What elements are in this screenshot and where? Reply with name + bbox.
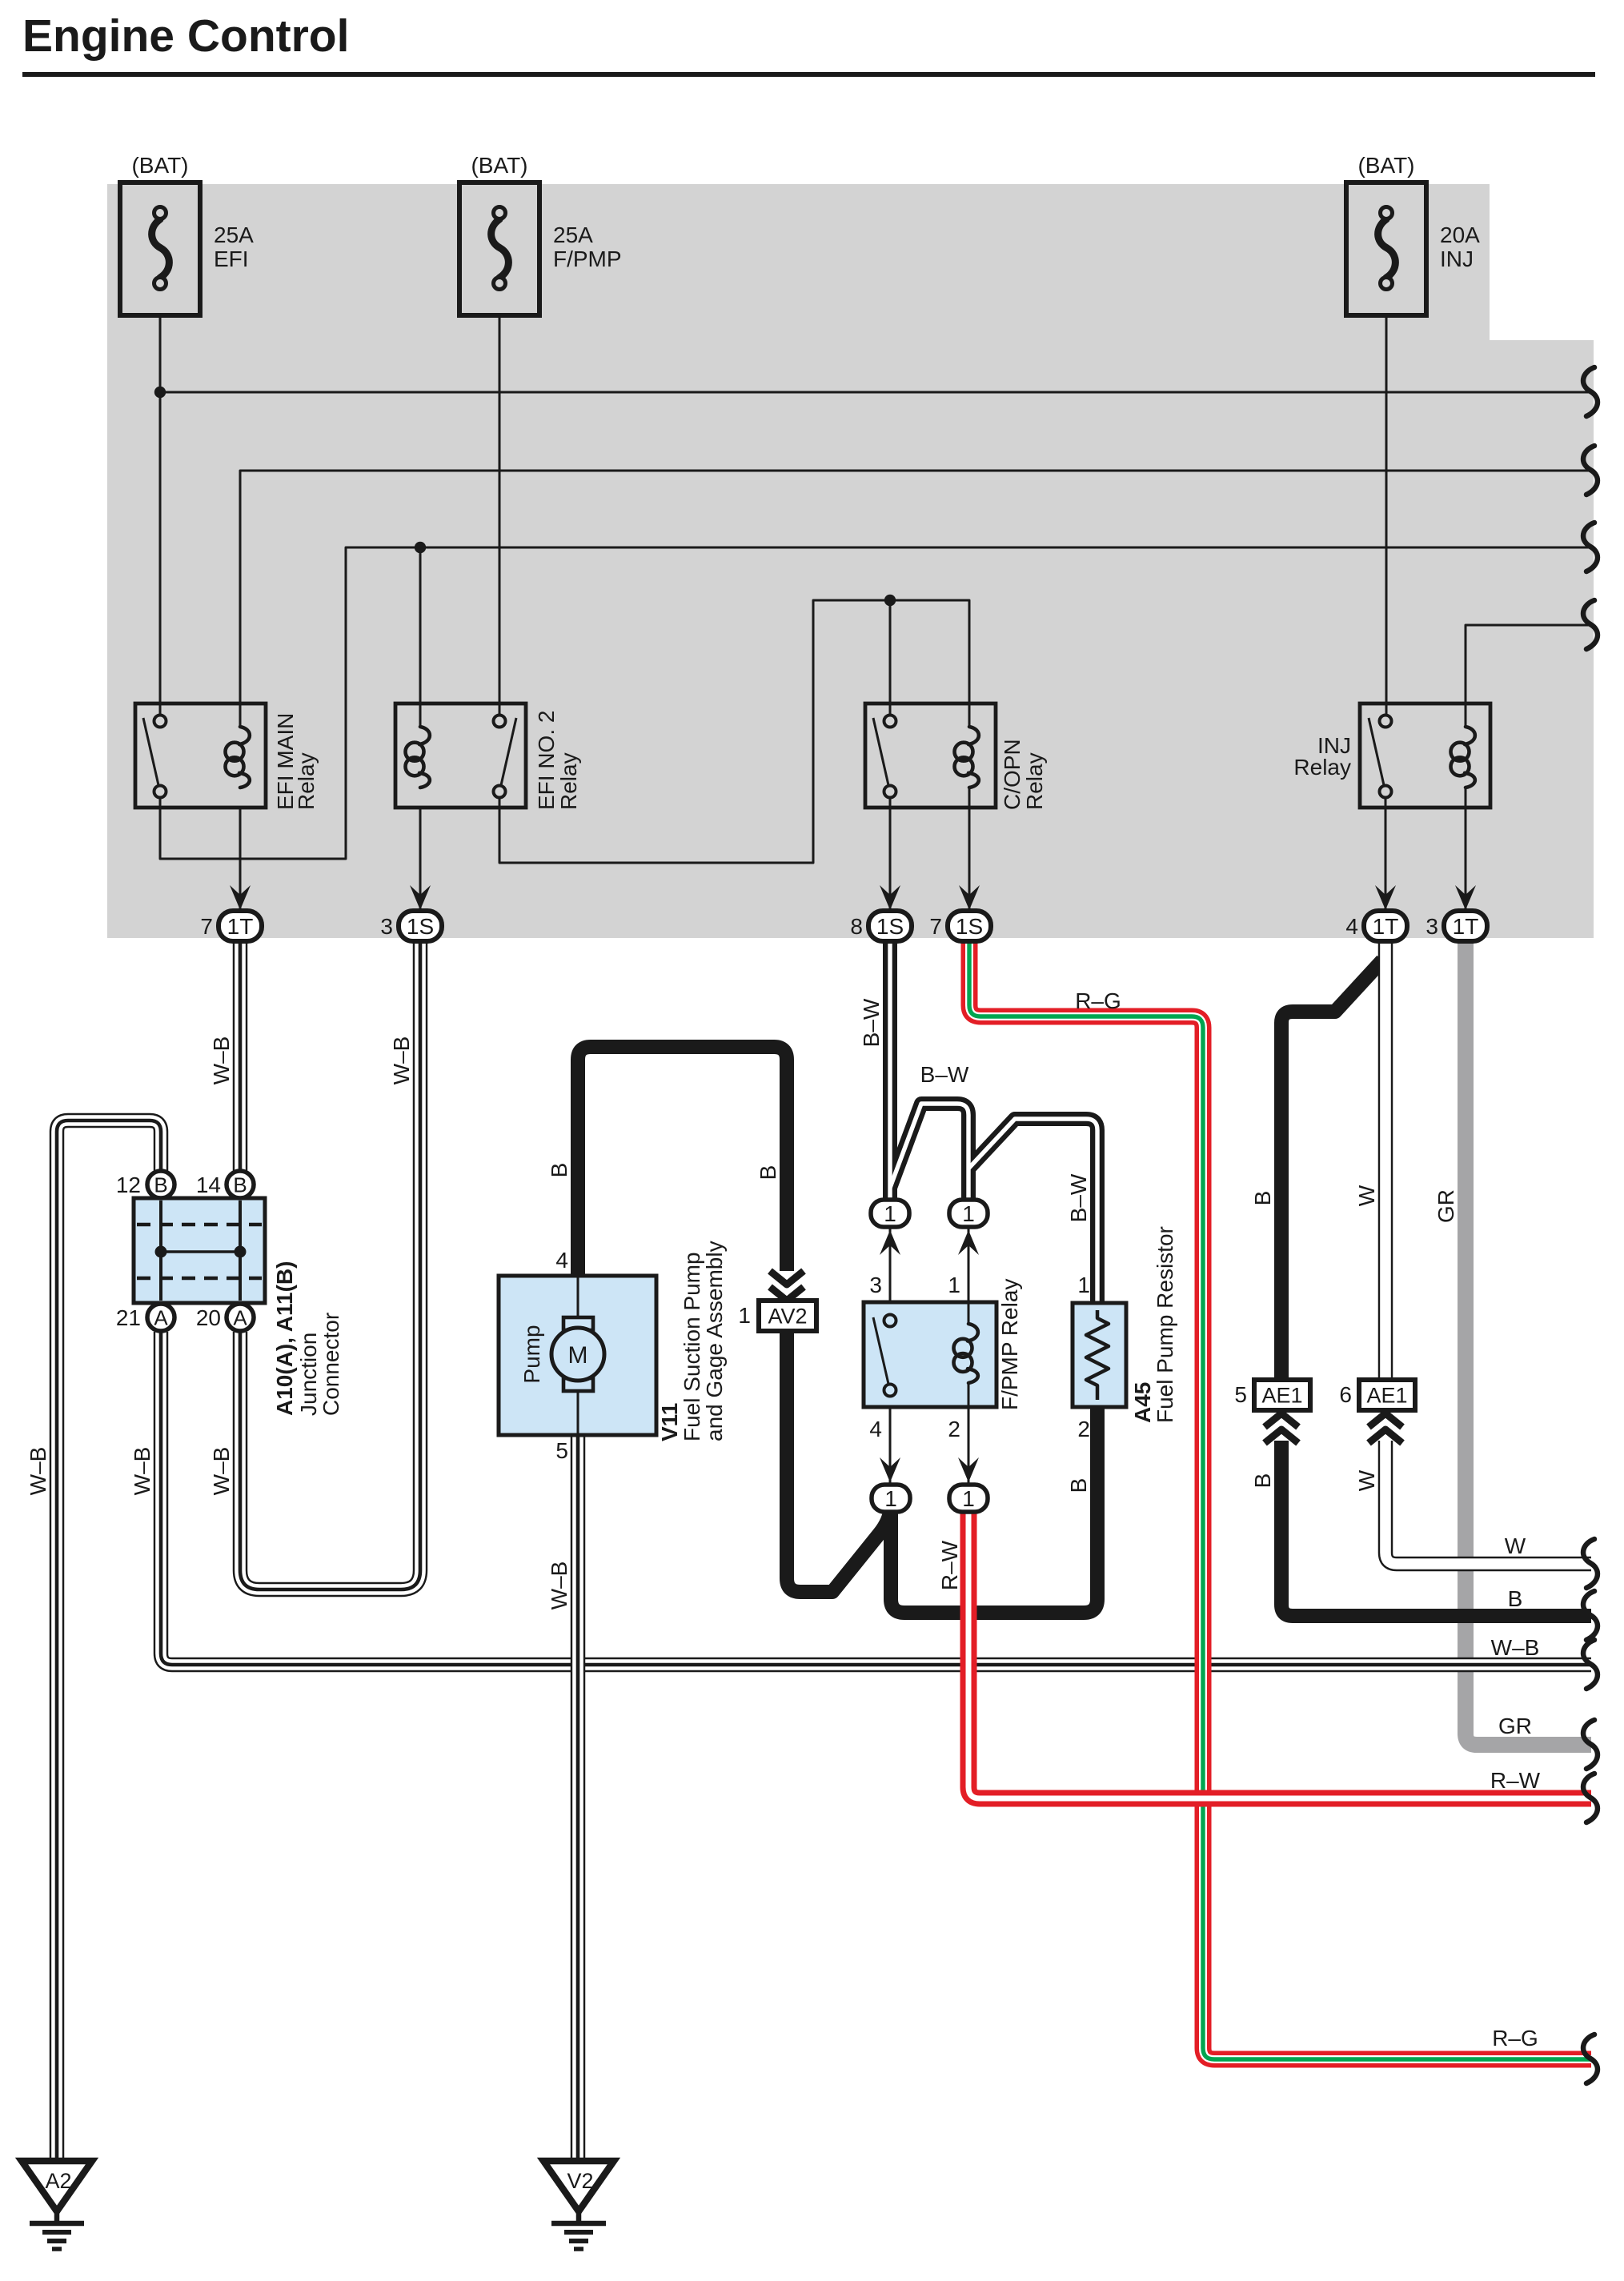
connector 7 1S — [948, 911, 991, 941]
svg-text:4: 4 — [1345, 914, 1358, 939]
connector 1 below F/PMP pin2 — [949, 1485, 988, 1512]
break symbol feeder y=781 — [1583, 600, 1598, 649]
wire EFI MAIN switch output to feeder line 3 — [160, 547, 1591, 859]
svg-text:1S: 1S — [407, 914, 434, 939]
fuse 20A INJ — [1346, 182, 1426, 315]
svg-text:20: 20 — [196, 1305, 221, 1330]
svg-text:1: 1 — [962, 1201, 975, 1226]
svg-text:R–G: R–G — [1075, 988, 1121, 1013]
wire feeder3 branch to EFI NO.2 coil — [419, 547, 422, 727]
wire EFI NO.2 switch output to C/OPN relay — [499, 600, 969, 863]
junction connector internal link — [161, 1250, 240, 1253]
svg-text:B: B — [154, 1173, 167, 1197]
svg-text:W–B: W–B — [389, 1036, 414, 1085]
svg-text:1T: 1T — [1453, 914, 1479, 939]
svg-text:3: 3 — [1426, 914, 1438, 939]
arrow into connector x=1831 — [1455, 885, 1476, 910]
terminal 21 A — [147, 1304, 174, 1331]
svg-text:W: W — [1505, 1533, 1526, 1558]
ground V2 — [543, 2161, 614, 2211]
pump internal wire — [577, 1276, 579, 1435]
svg-text:25A: 25A — [553, 222, 593, 247]
svg-text:3: 3 — [869, 1273, 882, 1297]
connector 6 AE1 box — [1359, 1380, 1415, 1410]
connector AV2 chevrons — [770, 1271, 804, 1285]
svg-text:B: B — [1066, 1478, 1091, 1493]
svg-text:B: B — [1508, 1586, 1523, 1611]
node junction feeder3 to EFI NO.2 coil — [415, 542, 426, 553]
svg-text:1S: 1S — [956, 914, 983, 939]
break symbol feeder y=588 — [1583, 446, 1598, 495]
arrow into connector x=525 — [410, 885, 431, 910]
connector 1 above F/PMP pin3 — [871, 1200, 909, 1227]
svg-text:1: 1 — [884, 1201, 896, 1226]
svg-text:EFI: EFI — [214, 247, 249, 271]
svg-text:Engine Control: Engine Control — [22, 10, 349, 62]
svg-text:W–B: W–B — [209, 1447, 234, 1496]
svg-text:4: 4 — [555, 1248, 568, 1273]
svg-text:B: B — [547, 1163, 571, 1178]
wire feeder line 2 from EFI MAIN coil — [240, 471, 1591, 727]
svg-text:1: 1 — [948, 1273, 960, 1297]
component V11 pump box — [499, 1276, 656, 1435]
wire relay output x=1731 — [1385, 798, 1387, 916]
wire W-B pump pin5 to ground V2 — [571, 1435, 586, 2161]
svg-text:1: 1 — [738, 1303, 751, 1328]
svg-text:W–B: W–B — [26, 1447, 50, 1496]
svg-text:Relay: Relay — [1022, 752, 1047, 810]
connector 7 1T — [219, 911, 262, 941]
svg-text:R–W: R–W — [1490, 1768, 1541, 1793]
wire W from 4-1T via AE1-6 to right edge — [1385, 940, 1591, 1564]
svg-text:B: B — [756, 1165, 780, 1181]
break symbol exit y=1954 — [1583, 1539, 1598, 1588]
svg-text:M: M — [568, 1342, 588, 1369]
junction connector dashed bus top — [137, 1223, 262, 1227]
wire F/PMP pin1 to connector — [968, 1226, 970, 1302]
svg-text:R–G: R–G — [1492, 2026, 1538, 2050]
svg-text:F/PMP: F/PMP — [553, 247, 622, 271]
svg-text:5: 5 — [555, 1438, 568, 1463]
break symbol feeder y=490 — [1583, 367, 1598, 416]
svg-text:V2: V2 — [567, 2169, 593, 2193]
wire W-B from 21A to right edge — [161, 1332, 1591, 1665]
relay EFI MAIN switch — [143, 718, 158, 785]
fuse 25A EFI — [120, 182, 200, 315]
svg-text:2: 2 — [948, 1417, 960, 1441]
resistor zigzag — [1086, 1310, 1109, 1400]
svg-text:5: 5 — [1234, 1382, 1247, 1407]
svg-text:25A: 25A — [214, 222, 254, 247]
wire W-B from junction 12B to ground A2 — [57, 1120, 161, 2161]
connector 8 1S — [868, 911, 912, 941]
svg-text:Relay: Relay — [294, 752, 319, 810]
junction connector dashed bus bottom — [137, 1277, 262, 1281]
svg-text:B: B — [1250, 1191, 1275, 1206]
wire fuse F/PMP to EFI NO.2 relay switch — [499, 315, 501, 721]
svg-text:A: A — [233, 1306, 247, 1330]
svg-text:B–W: B–W — [859, 998, 884, 1047]
wire F/PMP pin2 to connector — [968, 1407, 970, 1485]
wire F/PMP pin3 to connector — [889, 1226, 892, 1302]
svg-text:A: A — [154, 1306, 168, 1330]
junction connector box — [134, 1198, 265, 1303]
node junction C/OPN feed — [884, 595, 896, 606]
svg-text:and Gage Assembly: and Gage Assembly — [702, 1241, 727, 1441]
component A45 box — [1073, 1303, 1126, 1407]
break symbol exit y=2080 — [1583, 1640, 1598, 1689]
junction connector inner verticals — [159, 1201, 162, 1301]
connector 5 AE1 box — [1254, 1380, 1310, 1410]
connector 1 below F/PMP pin4 — [872, 1485, 910, 1512]
svg-text:W–B: W–B — [209, 1036, 234, 1085]
connector 1 above F/PMP pin1 — [949, 1200, 988, 1227]
svg-text:W–B: W–B — [547, 1561, 571, 1610]
svg-text:(BAT): (BAT) — [131, 153, 188, 178]
arrow into connector x=1112 — [880, 885, 900, 910]
svg-text:6: 6 — [1339, 1382, 1352, 1407]
wire B-W from 8-1S with branches to F/PMP pin1 and resistor A45 — [883, 940, 897, 1201]
svg-text:Relay: Relay — [556, 752, 581, 810]
relay C/OPN coil — [968, 727, 979, 744]
arrow into connector x=300 — [230, 885, 251, 910]
svg-text:F/PMP Relay: F/PMP Relay — [997, 1279, 1022, 1410]
svg-text:Junction: Junction — [296, 1333, 321, 1416]
wire R-W from F/PMP pin2 connector to right edge — [968, 1511, 1591, 1798]
relay INJ box — [1360, 704, 1490, 808]
break symbol exit y=2019 — [1583, 1591, 1598, 1640]
break symbol exit y=2573 — [1583, 2034, 1598, 2083]
terminal 14 B — [227, 1171, 254, 1198]
arrow into connector x=1211 — [959, 885, 980, 910]
svg-text:C/OPN: C/OPN — [1000, 739, 1025, 810]
wire fuse EFI to EFI MAIN relay switch — [159, 315, 162, 721]
svg-text:3: 3 — [380, 914, 393, 939]
ground A2 — [22, 2161, 92, 2211]
svg-text:EFI NO. 2: EFI NO. 2 — [534, 711, 559, 810]
wire fuse INJ to INJ relay switch — [1385, 315, 1388, 721]
svg-text:2: 2 — [1077, 1417, 1090, 1441]
svg-text:B: B — [1250, 1473, 1275, 1489]
svg-text:12: 12 — [116, 1173, 141, 1197]
svg-text:1: 1 — [884, 1486, 897, 1511]
break symbol feeder y=684 — [1583, 523, 1598, 571]
wire B AV2 to F/PMP pin4 connector — [787, 1331, 891, 1592]
svg-text:1T: 1T — [1373, 914, 1399, 939]
wire W-B from 7-1T to junction 14B — [233, 940, 248, 1171]
node junction on EFI fuse wire — [154, 387, 166, 398]
wire B pump pin4 to AV2 — [578, 1047, 787, 1276]
svg-text:Pump: Pump — [519, 1325, 544, 1383]
svg-text:W: W — [1354, 1469, 1379, 1491]
svg-text:W: W — [1354, 1185, 1379, 1206]
svg-text:Fuel Suction Pump: Fuel Suction Pump — [680, 1252, 704, 1441]
fuse 25A F/PMP — [459, 182, 539, 315]
terminal 12 B — [147, 1171, 174, 1198]
svg-text:A2: A2 — [45, 2169, 71, 2193]
relay C/OPN switch — [873, 718, 888, 785]
wire GR from 3-1T to right edge — [1466, 940, 1591, 1745]
svg-text:W–B: W–B — [1491, 1635, 1540, 1660]
relay F/PMP box — [864, 1302, 996, 1407]
svg-text:AE1: AE1 — [1261, 1384, 1302, 1408]
svg-text:4: 4 — [869, 1417, 882, 1441]
connector 3 1S — [399, 911, 442, 941]
svg-text:R–W: R–W — [937, 1540, 962, 1590]
svg-text:14: 14 — [196, 1173, 221, 1197]
relay INJ switch — [1369, 718, 1384, 785]
svg-text:Connector: Connector — [319, 1313, 343, 1416]
relay EFI MAIN coil — [239, 727, 250, 744]
svg-text:V11: V11 — [657, 1403, 682, 1441]
svg-text:GR: GR — [1498, 1714, 1532, 1738]
wire feeder line 1 — [160, 391, 1591, 394]
connector AV2 box — [759, 1301, 816, 1331]
svg-text:AE1: AE1 — [1366, 1384, 1407, 1408]
relay EFI NO.2 box — [395, 704, 526, 808]
svg-text:GR: GR — [1434, 1189, 1458, 1223]
relay EFI NO.2 switch — [501, 718, 516, 785]
motor brush top — [563, 1317, 593, 1330]
svg-text:A10(A), A11(B): A10(A), A11(B) — [272, 1261, 297, 1416]
svg-text:1: 1 — [962, 1486, 975, 1511]
relay INJ coil — [1465, 727, 1475, 744]
svg-text:A45: A45 — [1130, 1382, 1155, 1423]
svg-text:B–W: B–W — [1066, 1173, 1091, 1222]
connector 4 1T — [1364, 911, 1407, 941]
svg-text:7: 7 — [929, 914, 942, 939]
break symbol exit y=2180 — [1583, 1720, 1598, 1769]
svg-text:Relay: Relay — [1293, 755, 1351, 780]
gray harness region — [107, 184, 1594, 938]
motor brush bottom — [563, 1378, 593, 1391]
connector 3 1T — [1444, 911, 1487, 941]
wire relay output x=1831 — [1465, 789, 1467, 916]
svg-text:AV2: AV2 — [768, 1305, 807, 1329]
svg-text:(BAT): (BAT) — [471, 153, 527, 178]
wire relay output x=300 — [239, 808, 242, 916]
svg-text:INJ: INJ — [1440, 247, 1474, 271]
wire feeder line 4 from INJ coil — [1466, 625, 1591, 727]
wire relay output x=1112 — [889, 798, 892, 916]
svg-text:Fuel Pump Resistor: Fuel Pump Resistor — [1153, 1226, 1177, 1423]
svg-text:(BAT): (BAT) — [1357, 153, 1414, 178]
relay C/OPN box — [865, 704, 996, 808]
wire relay output x=525 — [419, 808, 422, 916]
relay F/PMP switch — [873, 1317, 888, 1384]
svg-text:B–W: B–W — [920, 1062, 969, 1087]
wire B F/PMP pin4 connector to resistor A45 pin2 — [891, 1407, 1097, 1613]
terminal 20 A — [227, 1304, 254, 1331]
wire C/OPN feed branch to switch — [889, 600, 892, 721]
arrow into connector x=1731 — [1375, 885, 1396, 910]
wire relay output x=1211 — [968, 789, 971, 916]
motor M — [551, 1328, 604, 1381]
svg-text:1S: 1S — [876, 914, 904, 939]
relay EFI MAIN box — [135, 704, 266, 808]
relay F/PMP coil — [968, 1324, 978, 1341]
title underline — [22, 72, 1595, 77]
connector 5 AE1 chevrons — [1265, 1429, 1298, 1443]
wire W-B from 3-1S U-turn to junction 20A — [240, 940, 420, 1589]
svg-text:1T: 1T — [227, 914, 254, 939]
relay EFI NO.2 coil — [419, 727, 430, 744]
svg-text:8: 8 — [850, 914, 863, 939]
svg-text:7: 7 — [200, 914, 213, 939]
svg-text:20A: 20A — [1440, 222, 1480, 247]
wire F/PMP pin4 to connector — [889, 1407, 892, 1485]
svg-text:B: B — [233, 1173, 247, 1197]
svg-text:21: 21 — [116, 1305, 141, 1330]
connector 6 AE1 chevrons — [1369, 1429, 1402, 1443]
break symbol exit y=2247 — [1583, 1774, 1598, 1822]
wire R-G from 7-1S to right edge — [969, 940, 1591, 2059]
svg-text:1: 1 — [1077, 1273, 1090, 1297]
wire B from 4-1T via AE1-5 to right edge — [1281, 960, 1591, 1616]
svg-text:W–B: W–B — [130, 1447, 154, 1496]
